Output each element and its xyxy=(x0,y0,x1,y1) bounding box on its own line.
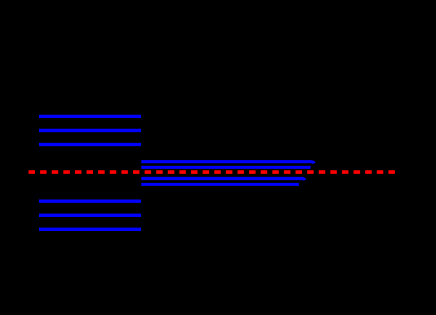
right level A (with hooked end) xyxy=(141,162,314,164)
left level L4 xyxy=(39,200,141,203)
right level C (with hooked end) xyxy=(141,179,305,181)
zero reference line (red dashed) xyxy=(29,170,395,174)
left level L3 xyxy=(39,143,141,146)
left level L1 xyxy=(39,115,141,118)
right level B xyxy=(141,166,310,169)
right level D xyxy=(141,183,299,186)
left level L2 xyxy=(39,129,141,132)
left level L5 xyxy=(39,214,141,217)
left level L6 xyxy=(39,228,141,231)
